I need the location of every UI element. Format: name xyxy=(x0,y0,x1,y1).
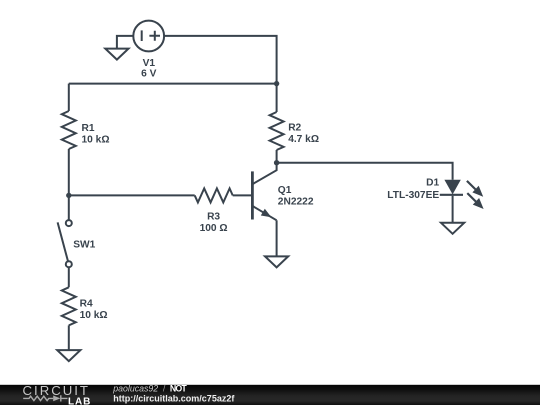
svg-text:6 V: 6 V xyxy=(141,69,156,80)
svg-text:R2: R2 xyxy=(288,123,301,134)
svg-text:http://circuitlab.com/c75az2f: http://circuitlab.com/c75az2f xyxy=(113,394,235,404)
voltage source V1 xyxy=(133,21,164,52)
svg-text:V1: V1 xyxy=(143,58,156,69)
wire R1 bottom to switch xyxy=(68,149,70,220)
wire emitter to ground xyxy=(276,220,278,256)
svg-text:paolucas92 / NOT: paolucas92 / NOT xyxy=(112,384,187,394)
node junction top xyxy=(274,81,279,86)
wire D1 to ground xyxy=(452,196,454,223)
resistor R4 xyxy=(62,287,76,325)
wire V1 right down to node xyxy=(164,36,276,84)
resistor R2 xyxy=(270,112,284,150)
wire switch to R4 xyxy=(68,267,70,287)
wire R4 to ground xyxy=(68,325,70,350)
svg-text:Q1: Q1 xyxy=(278,185,292,196)
resistor R3 xyxy=(195,188,233,202)
resistor R1 xyxy=(62,111,76,149)
svg-text:4.7 kΩ: 4.7 kΩ xyxy=(288,134,319,145)
svg-text:SW1: SW1 xyxy=(73,239,95,250)
svg-text:R1: R1 xyxy=(82,123,95,134)
svg-text:R3: R3 xyxy=(207,212,220,223)
svg-text:10 kΩ: 10 kΩ xyxy=(80,310,108,321)
switch SW1 xyxy=(58,220,72,267)
logo squiggle xyxy=(23,395,67,401)
wire R3 to Q1 base xyxy=(233,194,252,196)
ground bottom left xyxy=(57,350,80,361)
wire collector to D1 xyxy=(277,163,453,180)
wire node to R3 xyxy=(69,194,195,196)
svg-text:R4: R4 xyxy=(80,298,93,309)
ground under Q1 xyxy=(265,256,288,267)
svg-text:LTL-307EE: LTL-307EE xyxy=(387,190,439,201)
wire top horizontal xyxy=(69,83,277,85)
wire R2 bottom xyxy=(276,150,278,163)
footer bar xyxy=(0,385,540,405)
ground under D1 xyxy=(441,223,464,234)
svg-text:10 kΩ: 10 kΩ xyxy=(82,134,110,145)
svg-text:D1: D1 xyxy=(426,177,439,188)
LED light arrow 1 xyxy=(467,181,483,197)
node junction collector xyxy=(274,160,279,165)
wire V1 left to ground xyxy=(117,36,133,49)
LED D1 xyxy=(440,180,463,195)
wire R2 top xyxy=(276,84,278,112)
node junction left xyxy=(66,193,71,198)
transistor Q1 xyxy=(252,163,276,221)
ground near V1 xyxy=(105,49,128,60)
wire to R1 top xyxy=(68,84,70,111)
svg-text:100 Ω: 100 Ω xyxy=(200,223,228,234)
svg-text:LAB: LAB xyxy=(68,396,91,405)
svg-text:2N2222: 2N2222 xyxy=(278,197,314,208)
LED light arrow 2 xyxy=(467,193,483,209)
